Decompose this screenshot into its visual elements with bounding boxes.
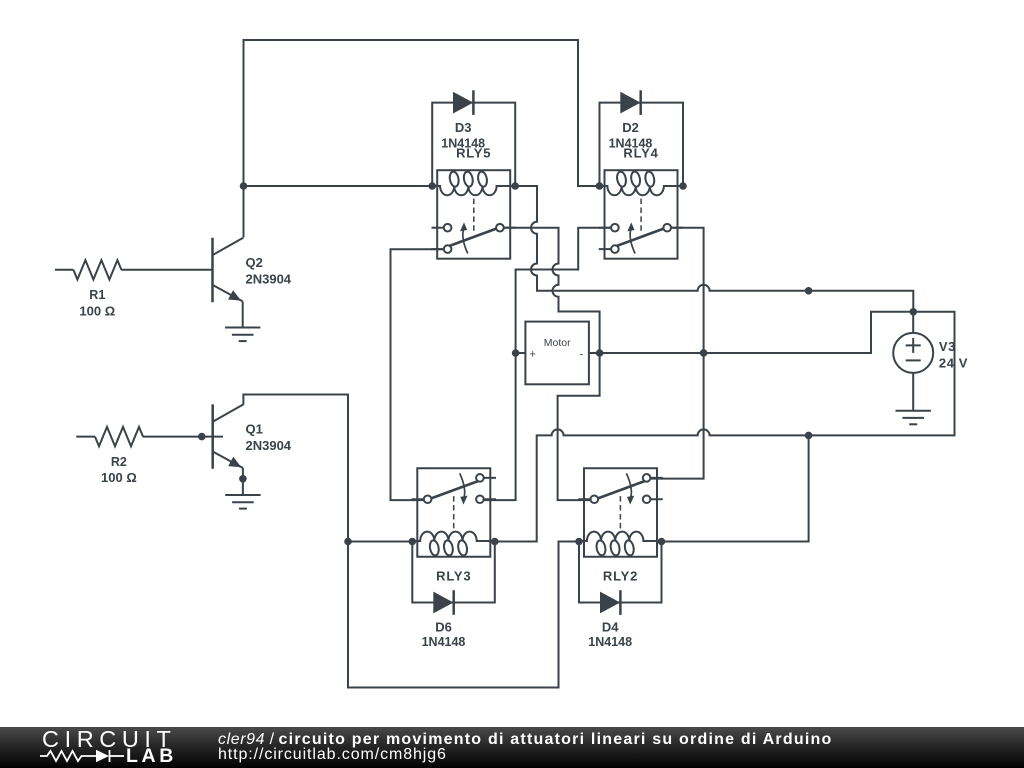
- node RLY4 coil B junction: [679, 182, 687, 190]
- relay RLY2: [578, 468, 662, 557]
- label RLY3: [436, 568, 471, 583]
- wire RLY2 coil B to +24V rail: [662, 435, 809, 541]
- ground at Q1 emitter: [225, 495, 260, 509]
- node motor - terminal: [596, 349, 604, 357]
- svg-text:Q2: Q2: [246, 255, 263, 270]
- node RLY4 coil A junction: [596, 182, 604, 190]
- diode D2: [620, 90, 640, 115]
- wire motor - to RLY2 left pole: [558, 353, 600, 500]
- voltage source V3: [893, 312, 933, 411]
- svg-text:+: +: [529, 349, 535, 361]
- diode D3 snubber loop: [432, 103, 515, 186]
- svg-text:R2: R2: [111, 455, 127, 469]
- wire top rail from Q2 collector node to RLY4 coil A: [244, 40, 600, 186]
- svg-text:100 Ω: 100 Ω: [79, 303, 115, 318]
- label D3: [455, 120, 472, 135]
- label D4 part 1N4148: [588, 635, 632, 649]
- svg-text:100 Ω: 100 Ω: [101, 470, 137, 485]
- svg-text:2N3904: 2N3904: [246, 438, 292, 453]
- svg-text:RLY4: RLY4: [623, 146, 658, 161]
- svg-text:2N3904: 2N3904: [246, 271, 292, 286]
- svg-text:Q1: Q1: [246, 422, 263, 437]
- node Q1 emitter junction: [239, 475, 247, 483]
- relay RLY3: [412, 468, 496, 557]
- footer title text: [218, 733, 833, 762]
- label Motor: [544, 337, 571, 349]
- svg-text:RLY2: RLY2: [603, 568, 638, 583]
- node +24V supply junction: [910, 308, 918, 316]
- motor M1: [516, 322, 600, 385]
- wire Q1 collector to RLY3 and RLY2 coil A: [243, 395, 579, 688]
- node RLY3 coil A pin: [409, 538, 417, 546]
- wire Q2 emitter to ground: [242, 301, 244, 327]
- label D4: [602, 620, 619, 635]
- svg-text:R1: R1: [89, 288, 105, 302]
- label Q2: [246, 255, 263, 270]
- svg-text:24 V: 24 V: [939, 355, 968, 370]
- node R2 to Q1 base junction: [198, 433, 206, 441]
- ground at V3 negative: [896, 411, 931, 425]
- label D6 part 1N4148: [422, 635, 466, 649]
- wire RLY4 pole to RLY2 throw: [650, 228, 704, 479]
- node RLY5 coil B junction: [511, 182, 519, 190]
- CircuitLab logo: [0, 726, 1024, 728]
- transistor Q2: [213, 238, 244, 303]
- node Q1 collector / RLY3 coil A junction: [344, 538, 352, 546]
- label RLY2: [603, 568, 638, 583]
- wire RLY3 coil A branch: [348, 541, 412, 543]
- diode D3: [453, 90, 473, 115]
- ground at Q2 emitter: [225, 328, 260, 342]
- node RLY5 coil A junction: [428, 182, 436, 190]
- node RLY3 coil B pin: [491, 538, 499, 546]
- diode D4 snubber loop: [579, 542, 662, 603]
- node RLY2 coil A pin: [575, 538, 583, 546]
- svg-text:V3: V3: [939, 339, 956, 354]
- footer bar: [0, 727, 1024, 768]
- label R2 value 100 Ohm: [101, 470, 137, 485]
- svg-text:LAB: LAB: [126, 745, 177, 767]
- label Q2 part 2N3904: [246, 271, 292, 286]
- wire RLY5 NO contact to motor - terminal: [503, 228, 599, 353]
- wire RLY4 NC contact to motor + column: [483, 228, 611, 500]
- label R2: [111, 455, 127, 469]
- node +24V rail / RLY4 coil B tap: [805, 287, 813, 295]
- label motor + pin: [529, 349, 535, 361]
- svg-text:-: -: [580, 349, 584, 361]
- transistor Q1: [213, 404, 244, 469]
- wire Q2 collector pin: [243, 186, 245, 237]
- node RLY4 pole / motor - crossing junction: [700, 349, 708, 357]
- node RLY2 coil B tap on +24V rail: [805, 432, 813, 440]
- diode D2 snubber loop: [600, 103, 684, 186]
- wire +24V node to RLY3 coil B (right side rail, hops twice): [495, 312, 955, 542]
- label Q1 part 2N3904: [246, 438, 292, 453]
- label R1: [89, 288, 105, 302]
- wire RLY5 coil B to +24V rail (hops over NO/NC rows): [515, 186, 913, 312]
- wire Q1 emitter to ground: [242, 468, 244, 495]
- svg-text:1N4148: 1N4148: [588, 635, 632, 649]
- relay RLY4: [599, 170, 683, 259]
- node Q2 collector junction: [240, 182, 248, 190]
- resistor R1: [55, 260, 213, 279]
- node RLY2 coil B pin: [658, 538, 666, 546]
- label motor - pin: [580, 349, 584, 361]
- label D3 part 1N4148: [441, 136, 485, 150]
- svg-text:D2: D2: [622, 120, 639, 135]
- diode D4: [600, 590, 620, 615]
- svg-text:D6: D6: [435, 620, 452, 635]
- svg-text:RLY5: RLY5: [456, 146, 491, 161]
- svg-text:1N4148: 1N4148: [422, 635, 466, 649]
- label RLY4: [623, 146, 658, 161]
- relay RLY5: [432, 170, 516, 259]
- wire motor - terminal to +24V node: [600, 312, 914, 353]
- wire Q2 collector node to RLY5 coil A: [244, 185, 433, 187]
- label D2: [622, 120, 639, 135]
- label V3: [939, 339, 956, 354]
- svg-text:Motor: Motor: [544, 337, 571, 349]
- label D6: [435, 620, 452, 635]
- label D2 part 1N4148: [609, 136, 653, 150]
- svg-text:D4: D4: [602, 620, 619, 635]
- wire RLY5 NC contact to RLY3 left pole: [391, 249, 445, 500]
- resistor R2: [76, 427, 223, 446]
- label Q1: [246, 422, 263, 437]
- label V3 value 24 V: [939, 355, 968, 370]
- label R1 value 100 Ohm: [79, 303, 115, 318]
- node motor + terminal: [512, 349, 520, 357]
- diode D6: [433, 590, 453, 615]
- label RLY5: [456, 146, 491, 161]
- diode D6 snubber loop: [412, 542, 495, 603]
- svg-text:RLY3: RLY3: [436, 568, 471, 583]
- svg-text:D3: D3: [455, 120, 472, 135]
